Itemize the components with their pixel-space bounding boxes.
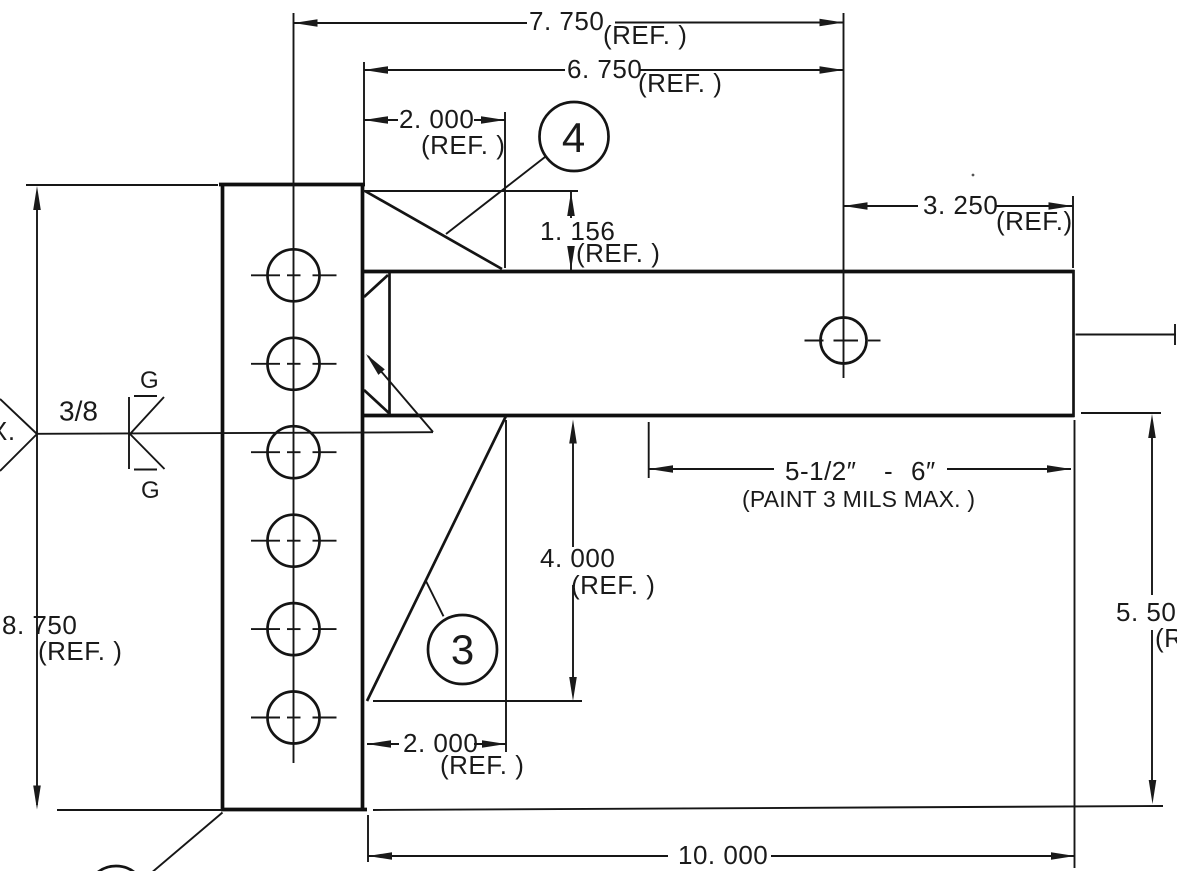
gusset 3 bottom extension line	[373, 700, 582, 702]
svg-text:5-1/2″: 5-1/2″	[785, 456, 856, 486]
dim 8.750	[2, 185, 222, 810]
tube (horizontal receiver tube)	[362, 270, 1075, 417]
hole H5	[251, 603, 337, 655]
tube hole centerline (also ext line for 7.750/6.750)	[843, 13, 845, 378]
svg-text:4: 4	[562, 114, 585, 161]
balloon 3	[426, 581, 497, 685]
hole H2	[251, 338, 337, 390]
svg-text:(PAINT 3 MILS MAX. ): (PAINT 3 MILS MAX. )	[742, 486, 975, 512]
scan speck	[972, 174, 975, 177]
svg-text:(REF. ): (REF. )	[38, 636, 122, 666]
dim 1.156	[540, 192, 660, 270]
dim 7.750	[294, 6, 844, 50]
svg-text:(REF. ): (REF. )	[638, 68, 722, 98]
dim 6.750	[364, 54, 844, 183]
balloon 5 (cut off at bottom)	[86, 813, 223, 871]
hitch pin line	[1076, 324, 1177, 345]
plate (vertical shank plate outline)	[219, 184, 367, 810]
svg-text:G: G	[141, 477, 160, 504]
svg-text:6. 750: 6. 750	[567, 54, 642, 84]
svg-text:(REF.): (REF.)	[996, 206, 1073, 236]
dim 2.000 bottom	[367, 420, 524, 780]
svg-text:3/8: 3/8	[59, 396, 98, 427]
hole H3	[251, 426, 337, 478]
svg-text:10. 000: 10. 000	[678, 840, 768, 870]
balloon 4	[446, 102, 609, 234]
tube left end (hidden behind weld)	[388, 273, 391, 414]
svg-text:4. 000: 4. 000	[540, 543, 615, 573]
svg-text:(REF. ): (REF. )	[1155, 623, 1177, 653]
weld hatch top	[364, 275, 388, 297]
svg-text:3. 250: 3. 250	[923, 190, 998, 220]
svg-text:7. 750: 7. 750	[529, 6, 604, 36]
svg-text:6″: 6″	[911, 456, 936, 486]
weld symbol	[0, 354, 433, 504]
svg-text:(REF. ): (REF. )	[571, 570, 655, 600]
svg-text:(REF. ): (REF. )	[440, 750, 524, 780]
svg-text:(REF. ): (REF. )	[603, 20, 687, 50]
dim 10.000	[368, 815, 1075, 870]
dim 5.500	[373, 413, 1177, 868]
hole H6	[251, 692, 337, 744]
svg-text:(REF. ): (REF. )	[576, 238, 660, 268]
hole H1	[251, 249, 337, 301]
tube hole	[805, 318, 881, 364]
svg-text:X.: X.	[0, 416, 16, 446]
svg-text:(REF. ): (REF. )	[421, 130, 505, 160]
weld hatch bottom	[364, 390, 390, 414]
dim 2.000 top	[364, 104, 505, 268]
gusset 3 hypotenuse	[367, 416, 506, 701]
dim 5-1/2 - 6 paint	[649, 422, 1071, 512]
dim 4.000	[540, 420, 655, 702]
svg-text:-: -	[884, 456, 893, 486]
hole H4	[251, 515, 337, 567]
plate centerline	[293, 13, 295, 763]
gusset 4 top extension line	[363, 190, 578, 192]
dim 3.250	[844, 190, 1074, 268]
svg-text:G: G	[140, 367, 159, 394]
svg-text:3: 3	[451, 626, 474, 673]
gusset 4 hypotenuse	[365, 191, 502, 269]
